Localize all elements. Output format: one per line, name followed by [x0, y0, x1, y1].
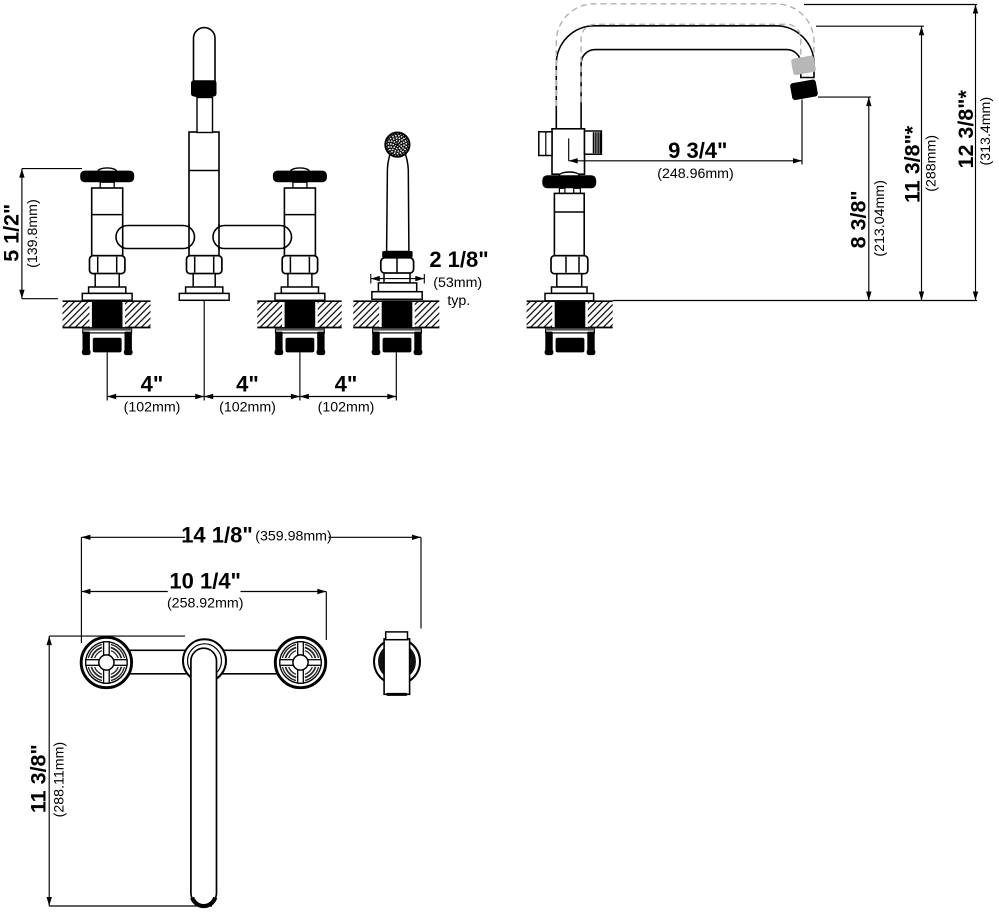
svg-text:(102mm): (102mm)	[318, 399, 375, 415]
svg-text:typ.: typ.	[447, 293, 470, 309]
svg-text:14 1/8": 14 1/8"	[181, 523, 253, 548]
svg-text:11 3/8": 11 3/8"	[27, 744, 51, 813]
svg-text:10 1/4": 10 1/4"	[169, 568, 241, 593]
svg-text:2 1/8": 2 1/8"	[429, 247, 488, 272]
svg-text:8 3/8": 8 3/8"	[846, 190, 870, 248]
svg-text:5 1/2": 5 1/2"	[0, 204, 23, 262]
svg-text:(248.96mm): (248.96mm)	[657, 166, 733, 182]
svg-text:12 3/8"*: 12 3/8"*	[954, 90, 978, 169]
svg-text:4": 4"	[236, 371, 259, 396]
svg-text:(139.8mm): (139.8mm)	[25, 199, 41, 268]
svg-text:(102mm): (102mm)	[124, 399, 181, 415]
svg-text:(288mm): (288mm)	[923, 135, 939, 192]
svg-text:(102mm): (102mm)	[219, 399, 276, 415]
svg-text:9 3/4": 9 3/4"	[668, 138, 727, 163]
svg-text:4": 4"	[335, 371, 358, 396]
svg-text:4": 4"	[141, 371, 164, 396]
svg-text:(258.92mm): (258.92mm)	[167, 595, 243, 611]
svg-text:(288.11mm): (288.11mm)	[52, 742, 68, 817]
svg-text:11 3/8"*: 11 3/8"*	[900, 125, 924, 203]
svg-text:(213.04mm): (213.04mm)	[872, 180, 888, 256]
svg-text:(359.98mm): (359.98mm)	[255, 529, 331, 545]
svg-text:(313.4mm): (313.4mm)	[978, 97, 994, 166]
svg-text:(53mm): (53mm)	[433, 275, 482, 291]
